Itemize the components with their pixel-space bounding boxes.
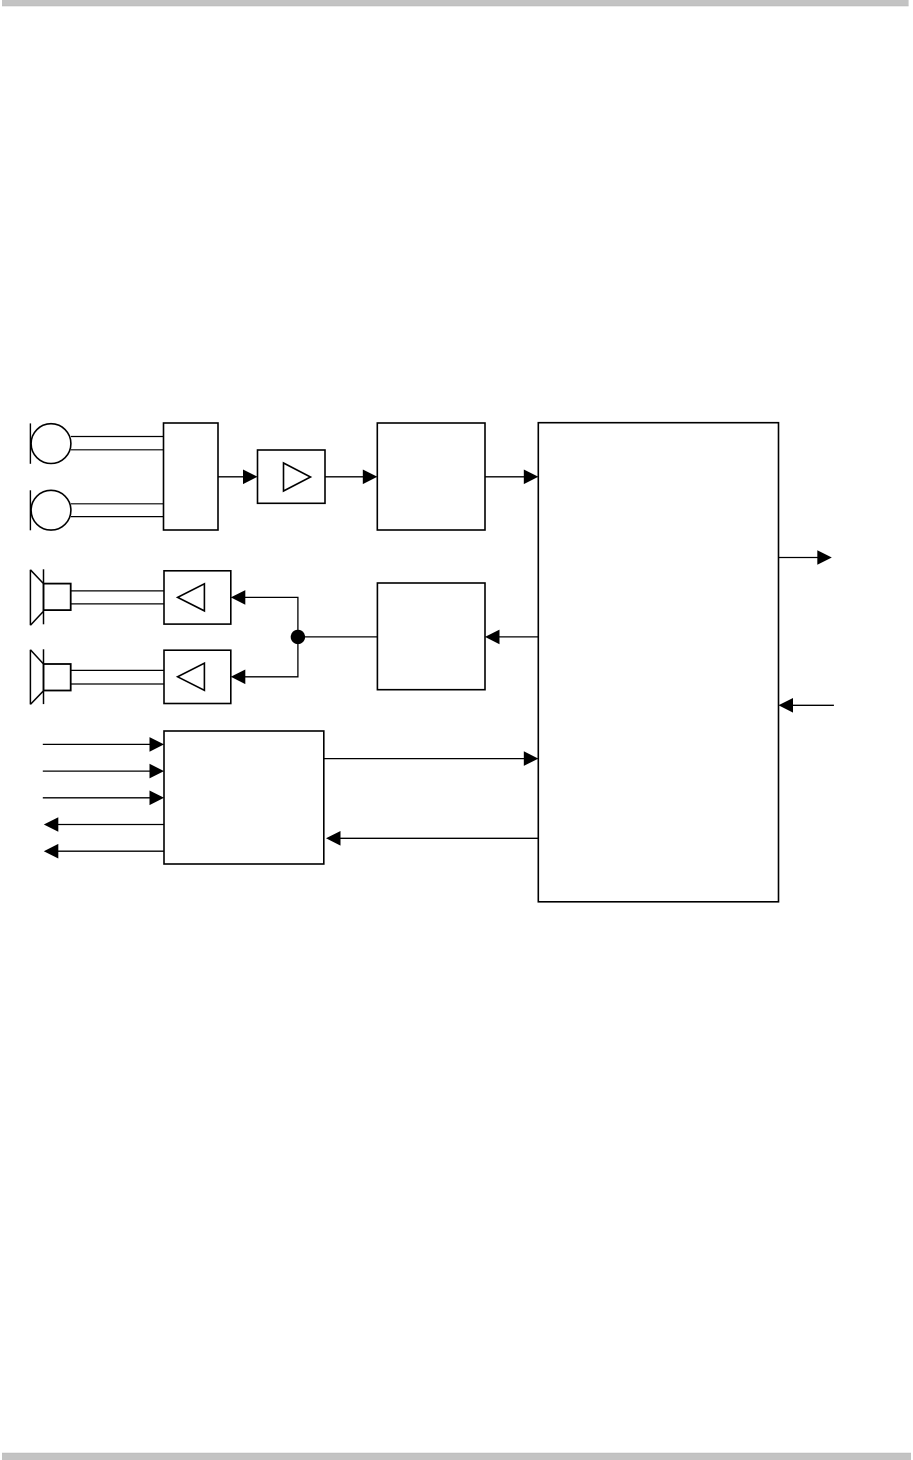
wire input 1 to U4 (arrow right) (43, 737, 164, 752)
wire U5 output right (arrow right) (779, 550, 832, 565)
node N1 junction dot (291, 630, 305, 644)
wire MIC1 pair to mic block (71, 437, 164, 450)
block U3 (377, 583, 485, 690)
wire output 1 from U4 (arrow left) (44, 817, 164, 832)
speaker SP1 (30, 569, 70, 625)
wire output 2 from U4 (arrow left) (44, 844, 164, 859)
microphone MIC2 (30, 490, 71, 530)
amplifier A1 (258, 450, 326, 503)
wire A1 to block U2 (arrow right) (325, 470, 377, 485)
microphone MIC1 (30, 423, 71, 463)
amplifier A2 (164, 571, 231, 624)
wire N1 to block U3 (298, 636, 378, 638)
wire U5 to U4 (arrow left) (326, 831, 538, 846)
speaker SP2 (30, 649, 70, 704)
wire U2 to main block U5 (arrow right) (485, 470, 538, 485)
wire input 2 to U4 (arrow right) (43, 764, 164, 779)
I/O block U4 (164, 731, 324, 864)
mic input block U1 (164, 423, 219, 530)
wire MIC2 pair to mic block (71, 504, 164, 517)
page footer bar (2, 1453, 911, 1460)
wire input to U5 right side (arrow left) (779, 698, 834, 713)
wire SP2 pair to amplifier A3 (71, 670, 164, 684)
wire node N1 to A2 (arrow left) (231, 590, 298, 637)
main LSI block U5 (538, 423, 778, 902)
block U2 (377, 423, 485, 530)
page header bar (2, 0, 909, 6)
wire U5 to U3 (arrow left) (485, 630, 538, 645)
wire SP1 pair to amplifier A2 (71, 591, 164, 604)
amplifier A3 (164, 650, 231, 703)
wire U1 to amplifier A1 (arrow right) (218, 470, 258, 485)
wire node N1 to A3 (arrow left) (231, 637, 298, 684)
wire input 3 to U4 (arrow right) (43, 791, 164, 806)
wire U4 to U5 (arrow right) (324, 751, 539, 766)
